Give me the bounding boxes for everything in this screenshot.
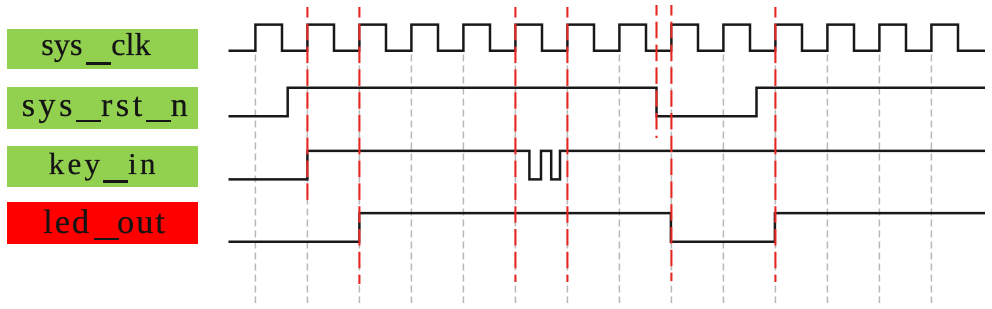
signal label sys_rst_n [7,87,198,129]
gridline clock edge 6 [514,55,516,304]
gridline clock edge 10 [722,55,724,304]
gridline clock edge 3 [358,55,360,304]
gridline clock edge 7 [566,55,568,304]
gridline clock edge 8 [618,55,620,304]
signal label key_in [7,146,198,187]
sys_clk waveform [229,25,986,51]
gridline clock edge 11 [774,55,776,304]
signal label led_out [7,202,198,244]
gridline clock edge 13 [878,55,880,304]
gridline clock edge 1 [254,55,256,304]
led_out waveform [229,213,986,242]
gray dashed clock-edge gridlines [255,55,931,304]
key_in waveform [229,151,986,180]
gridline clock edge 9 [670,55,672,304]
sys_rst_n waveform [229,88,986,116]
gridline clock edge 5 [462,55,464,304]
red marker: sys_rst_n falling [655,5,657,138]
red marker: glitch window start [514,7,516,282]
red dashed event markers [307,5,775,284]
gridline clock edge 14 [930,55,932,304]
red marker: led_out re-assert edge [774,7,776,282]
red marker: reset clock edge [670,5,672,281]
red marker: led_out toggle edge [358,7,360,284]
signal label sys_clk [7,29,198,69]
gridline clock edge 2 [306,55,308,304]
gridline clock edge 4 [410,55,412,304]
red marker: glitch window end [566,7,568,282]
gridline clock edge 12 [826,55,828,304]
red marker: key_in press edge [306,7,308,200]
